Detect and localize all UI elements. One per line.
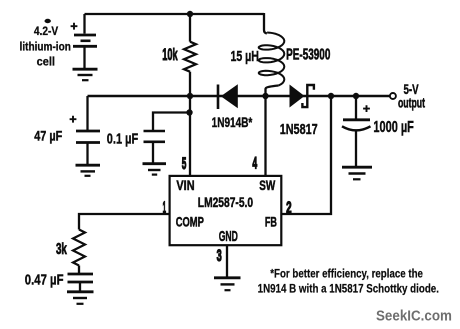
svg-text:SeekIC.com: SeekIC.com (376, 309, 452, 325)
svg-text:GND: GND (219, 229, 238, 245)
svg-text:0.47 µF: 0.47 µF (25, 273, 64, 289)
capacitor C4 0.47 uF (68, 266, 94, 292)
ground (battery negative) (73, 69, 98, 80)
terminal 5-V output (390, 93, 396, 99)
inductor L1 bottom lead (266, 86, 279, 97)
svg-text:*For better efficiency, replac: *For better efficiency, replace the (270, 266, 423, 280)
diode D1 1N914B cathode bar (217, 85, 220, 110)
svg-text:1N5817: 1N5817 (280, 121, 318, 138)
wire main bus (88, 95, 390, 97)
wire 0.1uF branch (153, 113, 190, 131)
inductor L1 15 uH coil (259, 33, 285, 86)
battery B1 positive lead (83, 14, 85, 34)
junction dot bus/1000uF (353, 93, 359, 99)
battery B1 4.2-V lithium-ion cell (73, 35, 97, 68)
svg-text:VIN: VIN (176, 178, 194, 193)
svg-text:FB: FB (265, 213, 277, 229)
capacitor C3 1000 uF top lead (355, 96, 357, 119)
svg-text:15 µH: 15 µH (230, 49, 259, 65)
svg-text:LM2587-5.0: LM2587-5.0 (198, 195, 254, 210)
svg-text:output: output (398, 96, 425, 112)
C3 plus sign (363, 105, 370, 112)
svg-text:5: 5 (182, 154, 187, 173)
junction dot bus/FB (328, 93, 334, 99)
svg-text:3k: 3k (56, 241, 67, 258)
wire SW pin 4 (264, 96, 266, 176)
wire top bus (85, 13, 265, 15)
svg-text:3: 3 (217, 246, 222, 265)
ground (C2) (143, 164, 167, 175)
diode D2 1N5817 triangle (290, 85, 305, 108)
wire GND pin 3 (226, 245, 228, 277)
junction dot bus/SW (262, 93, 268, 99)
ground (C1) (76, 165, 101, 176)
svg-text:1N914 B with a 1N5817 Schottky: 1N914 B with a 1N5817 Schottky diode. (258, 282, 439, 296)
svg-text:10k: 10k (162, 45, 178, 64)
capacitor C2 0.1 uF (144, 131, 166, 163)
svg-text:47 µF: 47 µF (34, 128, 62, 144)
junction dot 0.1uF tap (186, 109, 192, 115)
label 4.2-V lithium-ion cell (20, 26, 71, 68)
wire COMP pin 1 (79, 214, 170, 230)
ground (C4) (67, 292, 94, 304)
ground (C3) (342, 167, 372, 179)
junction dot top of 10k (187, 11, 193, 17)
ground (IC pin 3) (214, 278, 241, 290)
diode D2 1N5817 schottky bar (302, 85, 314, 107)
wire VIN pin 5 (189, 96, 191, 176)
capacitor C3 1000 uF (342, 120, 371, 166)
svg-text:0.1 µF: 0.1 µF (107, 131, 138, 148)
wire 47uF drop (86, 96, 88, 130)
svg-text:4: 4 (252, 154, 257, 173)
scan artifact dot above label (45, 19, 51, 23)
op-amp U1 LM2587-5.0 body (170, 176, 282, 245)
svg-text:COMP: COMP (176, 213, 204, 229)
svg-text:4.2-V: 4.2-V (34, 26, 59, 38)
wire FB pin 2 (281, 96, 331, 214)
diode D1 1N914B triangle (221, 84, 238, 108)
junction dot bus/10k (187, 93, 193, 99)
svg-text:1N914B*: 1N914B* (212, 115, 253, 130)
inductor L1 top lead (264, 13, 267, 33)
battery plus sign (71, 23, 78, 30)
resistor R1 10k (184, 14, 196, 96)
svg-text:SW: SW (259, 178, 276, 193)
svg-text:lithium-ion: lithium-ion (20, 40, 71, 54)
resistor R2 3k (73, 230, 85, 266)
capacitor C1 47 uF (76, 131, 100, 164)
svg-text:2: 2 (286, 198, 292, 217)
svg-text:cell: cell (37, 55, 55, 69)
svg-text:1000 µF: 1000 µF (373, 119, 414, 136)
svg-text:PE-53900: PE-53900 (286, 47, 330, 64)
C1 plus sign (70, 116, 77, 123)
